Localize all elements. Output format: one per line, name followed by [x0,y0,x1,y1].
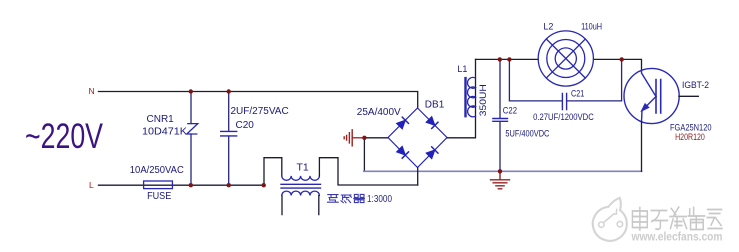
capacitor C21 branch wires [509,59,621,101]
diode DB1 top-right [426,116,438,128]
diode DB1 bottom-right [426,147,438,159]
svg-text:25A/400V: 25A/400V [357,107,401,118]
diode DB1 bottom-left [396,146,408,158]
resistor CNR1 varistor symbol [187,124,198,134]
node C20-N [227,89,231,93]
inductor L1 core bar [464,78,466,116]
transformer T1 primary winding [282,176,320,180]
capacitor C20 leads [228,92,230,186]
label 互感器 1:3000 [328,194,365,202]
svg-text:C22: C22 [503,105,517,115]
watermark logo circle [593,198,627,241]
svg-text:L1: L1 [457,64,467,74]
svg-text:T1: T1 [297,161,309,173]
wire node to bridge left [364,137,388,139]
svg-text:CNR1: CNR1 [147,114,175,125]
ground symbol at C22 [491,171,510,189]
svg-text:H20R120: H20R120 [675,132,705,142]
inductor L2 cross diagonals [546,39,585,78]
wire DC plus rail [476,59,642,70]
watermark 电子发烧友 [632,207,722,230]
wire node down to minus rail [363,138,365,172]
svg-text:IGBT-2: IGBT-2 [682,80,709,90]
transistor IGBT circle [624,68,679,123]
capacitor C21 plates [562,94,566,110]
transformer T1 core [281,184,321,188]
svg-text:110uH: 110uH [581,22,602,32]
capacitor C22 leads [499,59,501,171]
node C21 left top [507,57,511,61]
transformer T1 primary left lead [264,158,282,186]
svg-text:2UF/275VAC: 2UF/275VAC [231,106,289,117]
earth symbol at bridge AC input [344,130,352,146]
node C21 right top [620,57,624,61]
svg-text:N: N [89,86,95,96]
svg-text:1:3000: 1:3000 [367,194,392,205]
node varistor-N [189,89,193,93]
rectifier DB1 diamond [388,108,447,168]
transistor IGBT gate bars [656,80,661,114]
wire IGBT emitter down [641,122,643,172]
transformer T1 secondary winding [282,191,320,195]
capacitor C22 plates [493,119,508,122]
svg-text:0.27UF/1200VDC: 0.27UF/1200VDC [533,112,594,122]
capacitor C20 plates [221,131,237,136]
wire earth to node [353,137,365,139]
wire L rail [99,184,264,186]
svg-text:5UF/400VDC: 5UF/400VDC [505,129,549,139]
inductor L2 ring 3 [555,48,576,69]
hanzi hu [328,195,339,203]
diode DB1 top-left [396,117,408,129]
svg-text:L: L [89,180,94,190]
svg-text:DB1: DB1 [425,99,445,110]
wire IGBT right stub [679,95,698,97]
fuse FUSE body [144,181,173,189]
hanzi qi [354,194,365,202]
hanzi gan [341,195,351,203]
svg-text:C21: C21 [571,89,584,99]
transformer T1 secondary leads [282,196,319,215]
transistor IGBT emitter diagonal [642,97,657,122]
node varistor-L [189,183,193,187]
wire bridge bottom to T1 [417,168,419,186]
svg-text:C20: C20 [236,120,255,131]
resistor CNR1 varistor leads [190,92,192,186]
svg-text:~220V: ~220V [25,117,103,156]
node C22 ground [498,169,502,173]
svg-text:350UH: 350UH [478,84,489,116]
svg-text:www.elecfans.com: www.elecfans.com [631,232,723,244]
svg-text:10A/250VAC: 10A/250VAC [130,165,184,176]
svg-text:L2: L2 [543,22,553,32]
inductor L2 ring 2 [547,40,585,78]
wire minus rail [364,170,642,172]
inductor L2 work coil outer circle [538,31,593,86]
inductor L1 winding [468,77,476,116]
node bridge AC earth [362,136,366,140]
transformer T1 primary right lead [319,158,417,185]
svg-text:FUSE: FUSE [147,190,171,202]
node C20-L [227,183,231,187]
svg-text:10D471K: 10D471K [142,127,187,138]
wire N rail [99,92,418,109]
transistor IGBT emitter arrow [641,104,649,112]
node T1-L [262,183,266,187]
node C22 top [498,57,502,61]
wire bridge plus to L1 [447,59,475,137]
transistor IGBT collector diagonal [642,71,657,97]
